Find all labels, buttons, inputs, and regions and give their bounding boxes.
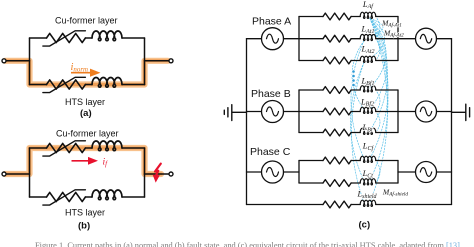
wire: right vertical (a) xyxy=(144,38,146,85)
wire: top branch segments (b) xyxy=(30,147,145,149)
wire: top branch segments (a) xyxy=(30,37,145,39)
mutual inductance arc M right A1-C2 xyxy=(370,19,388,182)
wire: right lead (b) xyxy=(145,173,170,175)
svg-text:LCf: LCf xyxy=(362,142,375,152)
wire box right to source B xyxy=(398,111,416,113)
mutual inductance arc M left A3-C2 xyxy=(351,63,365,182)
svg-text:LBf2: LBf2 xyxy=(360,97,374,107)
AC source right phase C xyxy=(416,162,437,183)
wire: left vertical (b) xyxy=(29,148,31,197)
svg-text:LBf1: LBf1 xyxy=(361,76,375,86)
wire source to box left C xyxy=(284,171,300,173)
resistor row B1 xyxy=(323,87,351,94)
wire branch row A1 xyxy=(299,16,398,18)
mutual inductance arc adjacent B1-B2 xyxy=(377,92,380,110)
arrow i_norm (a) xyxy=(71,69,101,77)
wire branch row A2 xyxy=(299,38,398,40)
ground symbol right (c) xyxy=(452,104,470,120)
AC source left phase B xyxy=(262,101,284,123)
terminal left (b) xyxy=(2,172,6,176)
resistor row B3 xyxy=(323,129,351,136)
wire branch row B3 xyxy=(299,132,398,134)
terminal right (a) xyxy=(169,59,173,63)
phase A branch box verticals xyxy=(299,17,398,61)
wire: bottom branch segments (a) xyxy=(30,84,145,86)
mutual inductance arc adjacent B2-B3 xyxy=(377,114,380,131)
wire: left lead (b) xyxy=(6,173,30,175)
svg-text:inorm: inorm xyxy=(71,62,88,74)
inductor L_hts (b) bottom branch xyxy=(92,190,122,200)
inductor L_cu (b) top branch xyxy=(92,141,122,151)
wire: bottom branch segments (b) xyxy=(30,196,145,198)
wire branch row B2 xyxy=(299,111,398,113)
wire source to right bus C xyxy=(437,171,452,173)
resistor row A2 xyxy=(323,35,351,42)
arrow i_f (b) xyxy=(72,157,99,165)
wire: left vertical (a) xyxy=(29,38,31,85)
inductor L_C1 xyxy=(360,156,376,162)
mutual inductance arc M right A1-A3 xyxy=(370,19,385,59)
inductor L_A3 xyxy=(360,56,376,62)
mutual inductance arc adjacent A2-A3 xyxy=(377,41,380,59)
inductor L_B2 xyxy=(360,107,376,113)
mutual inductance arc M left A2-C1 xyxy=(351,41,364,159)
ground symbol left (c) xyxy=(224,105,246,121)
resistor shield xyxy=(323,201,351,208)
svg-text:(c): (c) xyxy=(359,220,371,231)
svg-text:Lshield: Lshield xyxy=(357,190,378,200)
panel (c) group xyxy=(351,19,389,203)
svg-text:LAf: LAf xyxy=(362,0,374,10)
left bus wire (c) xyxy=(246,39,248,205)
wire branch row C2 xyxy=(299,182,398,184)
svg-text:Figure 1. Current paths in (a): Figure 1. Current paths in (a) normal an… xyxy=(35,241,462,247)
wire branch row A3 xyxy=(299,60,398,62)
wire: right vertical (b) xyxy=(144,148,146,197)
inductor L_B3 xyxy=(360,128,376,134)
orange current path highlight (b): fault current through Cu-former xyxy=(5,148,161,174)
resistor R_cu (b) top branch xyxy=(47,143,86,152)
svg-text:if: if xyxy=(103,158,109,169)
svg-text:LCt: LCt xyxy=(362,169,374,179)
inductor L_shield xyxy=(360,200,376,206)
AC source left phase A xyxy=(262,28,284,50)
inductor L_A2 xyxy=(360,34,376,40)
svg-text:Phase B: Phase B xyxy=(251,88,291,100)
wire left bus to source B xyxy=(247,111,262,113)
wire: right lead (a) xyxy=(145,60,170,62)
resistor R_hts (a) bottom branch xyxy=(47,80,86,89)
svg-text:Phase A: Phase A xyxy=(252,16,291,28)
mutual inductance arc M right A1-B1 xyxy=(370,19,386,89)
svg-text:MAf-At1: MAf-At1 xyxy=(381,19,402,29)
orange current path highlight (a): normal current through HTS layer xyxy=(5,61,168,85)
wire source to right bus B xyxy=(437,111,452,113)
panel (b) group xyxy=(2,141,173,205)
wire source to box left A xyxy=(284,38,300,40)
svg-text:(b): (b) xyxy=(78,221,90,232)
svg-text:LBt: LBt xyxy=(362,123,373,133)
ellipsis dots between phase A and B branches xyxy=(351,69,355,73)
mutual inductance arc adjacent C1-C2 xyxy=(377,163,380,182)
svg-text:HTS layer: HTS layer xyxy=(65,97,105,107)
right bus wire (c) xyxy=(451,39,453,205)
AC source left phase C xyxy=(262,161,284,183)
AC source right phase B xyxy=(416,101,437,122)
inductor L_A1 xyxy=(360,12,376,18)
fault lightning bolt (b) xyxy=(155,164,161,176)
svg-text:HTS layer: HTS layer xyxy=(65,208,105,218)
wire box right to source C xyxy=(398,171,416,173)
wire left bus to source A xyxy=(247,38,262,40)
phase B branch box verticals xyxy=(299,90,398,133)
panel (a) group xyxy=(2,31,173,93)
resistor R_hts (b) bottom branch xyxy=(47,192,86,201)
mutual inductance arc adjacent A1-A2 xyxy=(377,19,380,37)
svg-text:MAf-At2: MAf-At2 xyxy=(383,28,404,38)
wire: left lead (a) xyxy=(6,60,30,62)
wire box right to source A xyxy=(398,38,416,40)
phase C branch box verticals xyxy=(299,161,398,184)
resistor row B2 xyxy=(323,108,351,115)
mutual inductance arc M right A1-SH xyxy=(370,19,388,203)
mutual inductance arc M right A1-B2 xyxy=(370,19,387,110)
svg-text:Cu-former layer: Cu-former layer xyxy=(56,129,119,139)
svg-text:MAf-shield: MAf-shield xyxy=(382,188,408,198)
mutual inductance arc M right A1-C1 xyxy=(370,19,388,159)
wire source to right bus A xyxy=(437,38,452,40)
resistor row C1 xyxy=(323,157,351,164)
wire branch row C1 xyxy=(299,160,398,162)
resistor row A3 xyxy=(323,57,351,64)
resistor R_cu (a) top branch xyxy=(47,33,86,42)
resistor row A1 xyxy=(323,13,351,20)
svg-text:LAt2: LAt2 xyxy=(361,44,375,54)
AC source right phase A xyxy=(416,28,437,49)
inductor L_B1 xyxy=(360,86,376,92)
inductor L_C2 xyxy=(360,179,376,185)
mutual inductance arc M left A3-SH xyxy=(352,63,365,203)
mutual inductance arc M right A1-A2 xyxy=(370,19,383,37)
svg-text:(a): (a) xyxy=(80,108,92,119)
inductor L_cu (a) top branch xyxy=(92,31,122,41)
terminal left (a) xyxy=(2,59,6,63)
inductor L_hts (a) bottom branch xyxy=(92,78,122,88)
mutual inductance arc M left A2-B2 xyxy=(352,41,364,110)
mutual inductance arc M right A1-B3 xyxy=(370,19,388,131)
svg-text:LAt1: LAt1 xyxy=(361,25,375,35)
svg-text:Phase C: Phase C xyxy=(250,146,291,158)
wire source to box left B xyxy=(284,111,300,113)
svg-text:Cu-former layer: Cu-former layer xyxy=(55,16,118,26)
wire branch row B1 xyxy=(299,89,398,91)
resistor row C2 xyxy=(323,180,351,187)
terminal right (b) xyxy=(169,172,173,176)
wire left bus to source C xyxy=(247,171,262,173)
shield row wire xyxy=(247,204,452,206)
